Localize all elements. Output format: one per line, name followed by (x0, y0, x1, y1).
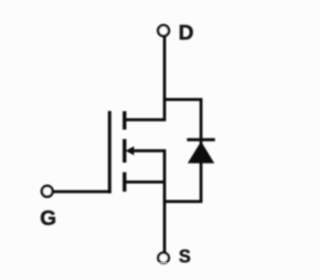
cathode bar of body diode (187, 138, 215, 141)
terminal circle G (42, 186, 53, 197)
wire: body contact down to terminal S (132, 151, 165, 253)
wire: body-diode branch (drain node right, down, back to source node) (165, 100, 202, 202)
terminal circle S (158, 253, 169, 264)
wire: gate lead from terminal G (53, 190, 112, 193)
fade on bottom of S terminal circle (155, 262, 172, 266)
gate electrode line of MOSFET Q1 (108, 111, 111, 193)
terminal circle D (158, 25, 169, 36)
anode triangle of body diode (188, 141, 215, 163)
source channel bar of MOSFET Q1 (123, 172, 127, 191)
body channel bar of MOSFET Q1 (123, 139, 127, 163)
svg-text:D: D (179, 22, 194, 45)
wire: source contact stub (124, 181, 167, 184)
wire: drain lead from terminal D down to drain contact (124, 37, 165, 120)
body arrow of MOSFET Q1 (pointing to gate) (125, 146, 134, 155)
svg-text:G: G (40, 207, 56, 230)
drain channel bar of MOSFET Q1 (123, 111, 127, 129)
svg-text:S: S (179, 246, 191, 266)
